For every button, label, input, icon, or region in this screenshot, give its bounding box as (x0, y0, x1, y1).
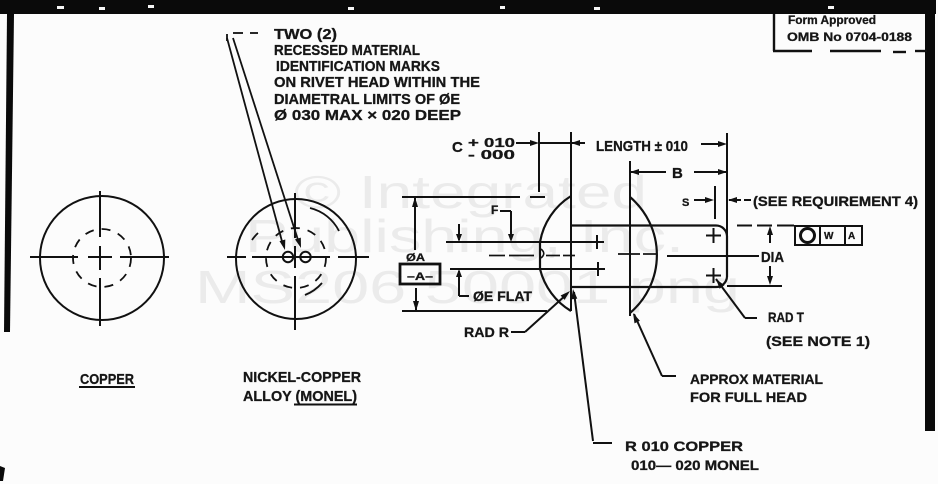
svg-text:NICKEL-COPPER: NICKEL-COPPER (243, 370, 362, 386)
svg-text:(SEE NOTE 1): (SEE NOTE 1) (766, 333, 870, 349)
svg-text:S: S (682, 197, 689, 209)
svg-text:RAD T: RAD T (768, 309, 804, 325)
svg-text:Ø 030 MAX × 020 DEEP: Ø 030 MAX × 020 DEEP (274, 108, 461, 124)
svg-text:TWO (2): TWO (2) (274, 27, 337, 43)
svg-text:DIA: DIA (761, 249, 784, 266)
svg-text:RAD R: RAD R (464, 324, 509, 340)
svg-text:–A–: –A– (407, 271, 433, 283)
svg-text:F: F (491, 203, 498, 217)
svg-text:A: A (848, 231, 855, 242)
svg-text:RECESSED MATERIAL: RECESSED MATERIAL (274, 43, 420, 59)
svg-text:C: C (452, 139, 463, 156)
svg-text:DIAMETRAL LIMITS OF ØE: DIAMETRAL LIMITS OF ØE (274, 92, 460, 108)
svg-text:APPROX MATERIAL: APPROX MATERIAL (690, 371, 823, 387)
svg-text:010— 020 MONEL: 010— 020 MONEL (631, 457, 759, 473)
svg-text:IDENTIFICATION MARKS: IDENTIFICATION MARKS (276, 59, 440, 75)
svg-text:- 000: - 000 (468, 147, 515, 162)
svg-text:ALLOY (MONEL): ALLOY (MONEL) (243, 389, 357, 405)
svg-text:B: B (672, 165, 683, 182)
svg-text:OMB No 0704-0188: OMB No 0704-0188 (787, 30, 912, 44)
svg-text:FOR FULL HEAD: FOR FULL HEAD (690, 389, 807, 405)
svg-text:W: W (824, 231, 834, 242)
svg-text:LENGTH ± 010: LENGTH ± 010 (596, 139, 688, 155)
svg-text:ØA: ØA (406, 252, 425, 264)
svg-text:ON RIVET HEAD WITHIN THE: ON RIVET HEAD WITHIN THE (274, 75, 480, 91)
svg-text:COPPER: COPPER (80, 372, 134, 388)
svg-text:R 010 COPPER: R 010 COPPER (625, 438, 743, 454)
svg-text:(SEE REQUIREMENT 4): (SEE REQUIREMENT 4) (753, 193, 918, 209)
svg-text:ØE FLAT: ØE FLAT (473, 289, 533, 304)
svg-text:Form Approved: Form Approved (788, 13, 876, 27)
